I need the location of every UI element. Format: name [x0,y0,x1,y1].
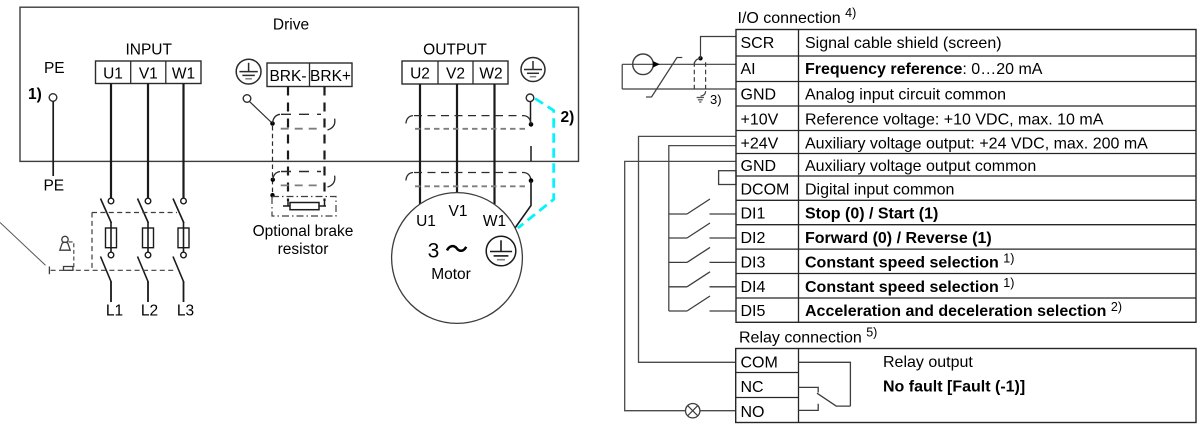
svg-text:Analog input circuit common: Analog input circuit common [805,87,1006,104]
svg-text:Digital input common: Digital input common [805,182,954,199]
svg-text:DI4: DI4 [741,279,766,296]
svg-text:Optional brake: Optional brake [253,223,354,240]
svg-text:U1: U1 [416,213,436,230]
svg-text:U2: U2 [410,66,430,83]
svg-text:U1: U1 [103,66,123,83]
svg-text:Relay connection 5): Relay connection 5) [739,326,877,347]
svg-text:Forward (0) / Reverse (1): Forward (0) / Reverse (1) [805,230,992,247]
svg-text:GND: GND [741,87,777,104]
svg-text:W1: W1 [483,213,506,230]
svg-text:Auxiliary voltage output commo: Auxiliary voltage output common [805,158,1036,175]
svg-text:L2: L2 [141,303,158,320]
svg-text:INPUT: INPUT [125,42,172,59]
svg-text:Constant speed selection 1): Constant speed selection 1) [805,276,1014,296]
svg-text:I/O connection 4): I/O connection 4) [738,6,857,27]
svg-text:AI: AI [741,61,756,78]
svg-text:No fault [Fault (-1)]: No fault [Fault (-1)] [883,379,1025,396]
svg-text:Stop (0) / Start (1): Stop (0) / Start (1) [805,206,938,223]
svg-text:DI1: DI1 [741,206,766,223]
svg-text:NO: NO [741,404,765,421]
svg-text:V1: V1 [449,203,468,220]
svg-text:V1: V1 [139,66,158,83]
svg-text:NC: NC [741,379,764,396]
svg-text:PE: PE [44,60,65,77]
svg-text:DI2: DI2 [741,230,766,247]
svg-text:Auxiliary voltage output: +24: Auxiliary voltage output: +24 VDC, max. … [805,136,1148,153]
svg-text:Acceleration and deceleration: Acceleration and deceleration selection … [805,300,1122,320]
svg-text:COM: COM [741,355,778,372]
svg-text:W1: W1 [172,66,195,83]
svg-text:Constant speed selection 1): Constant speed selection 1) [805,251,1014,271]
svg-text:OUTPUT: OUTPUT [423,42,487,59]
svg-text:L3: L3 [177,303,194,320]
svg-text:DI5: DI5 [741,303,766,320]
svg-text:GND: GND [741,158,777,175]
svg-text:Relay output: Relay output [883,354,973,371]
svg-text:DI3: DI3 [741,254,766,271]
svg-text:BRK+: BRK+ [310,68,351,85]
svg-text:W2: W2 [479,66,502,83]
svg-text:1): 1) [28,86,42,103]
svg-text:Signal cable shield (screen): Signal cable shield (screen) [805,35,1002,52]
svg-text:PE: PE [43,178,64,195]
svg-text:L1: L1 [106,303,123,320]
svg-text:DCOM: DCOM [741,182,790,199]
svg-text:resistor: resistor [278,241,329,258]
svg-text:+10V: +10V [741,112,779,129]
svg-text:SCR: SCR [741,35,775,52]
svg-text:BRK-: BRK- [269,68,306,85]
svg-text:3: 3 [428,240,440,263]
svg-text:Drive: Drive [273,16,309,33]
svg-text:V2: V2 [446,66,465,83]
svg-text:Reference voltage: +10 VDC, ma: Reference voltage: +10 VDC, max. 10 mA [805,112,1104,129]
svg-text:3): 3) [710,92,722,107]
svg-text:2): 2) [561,109,575,126]
svg-text:Frequency reference: 0…20 mA: Frequency reference: 0…20 mA [805,61,1043,78]
svg-text:+24V: +24V [741,136,779,153]
svg-text:Motor: Motor [431,266,471,283]
